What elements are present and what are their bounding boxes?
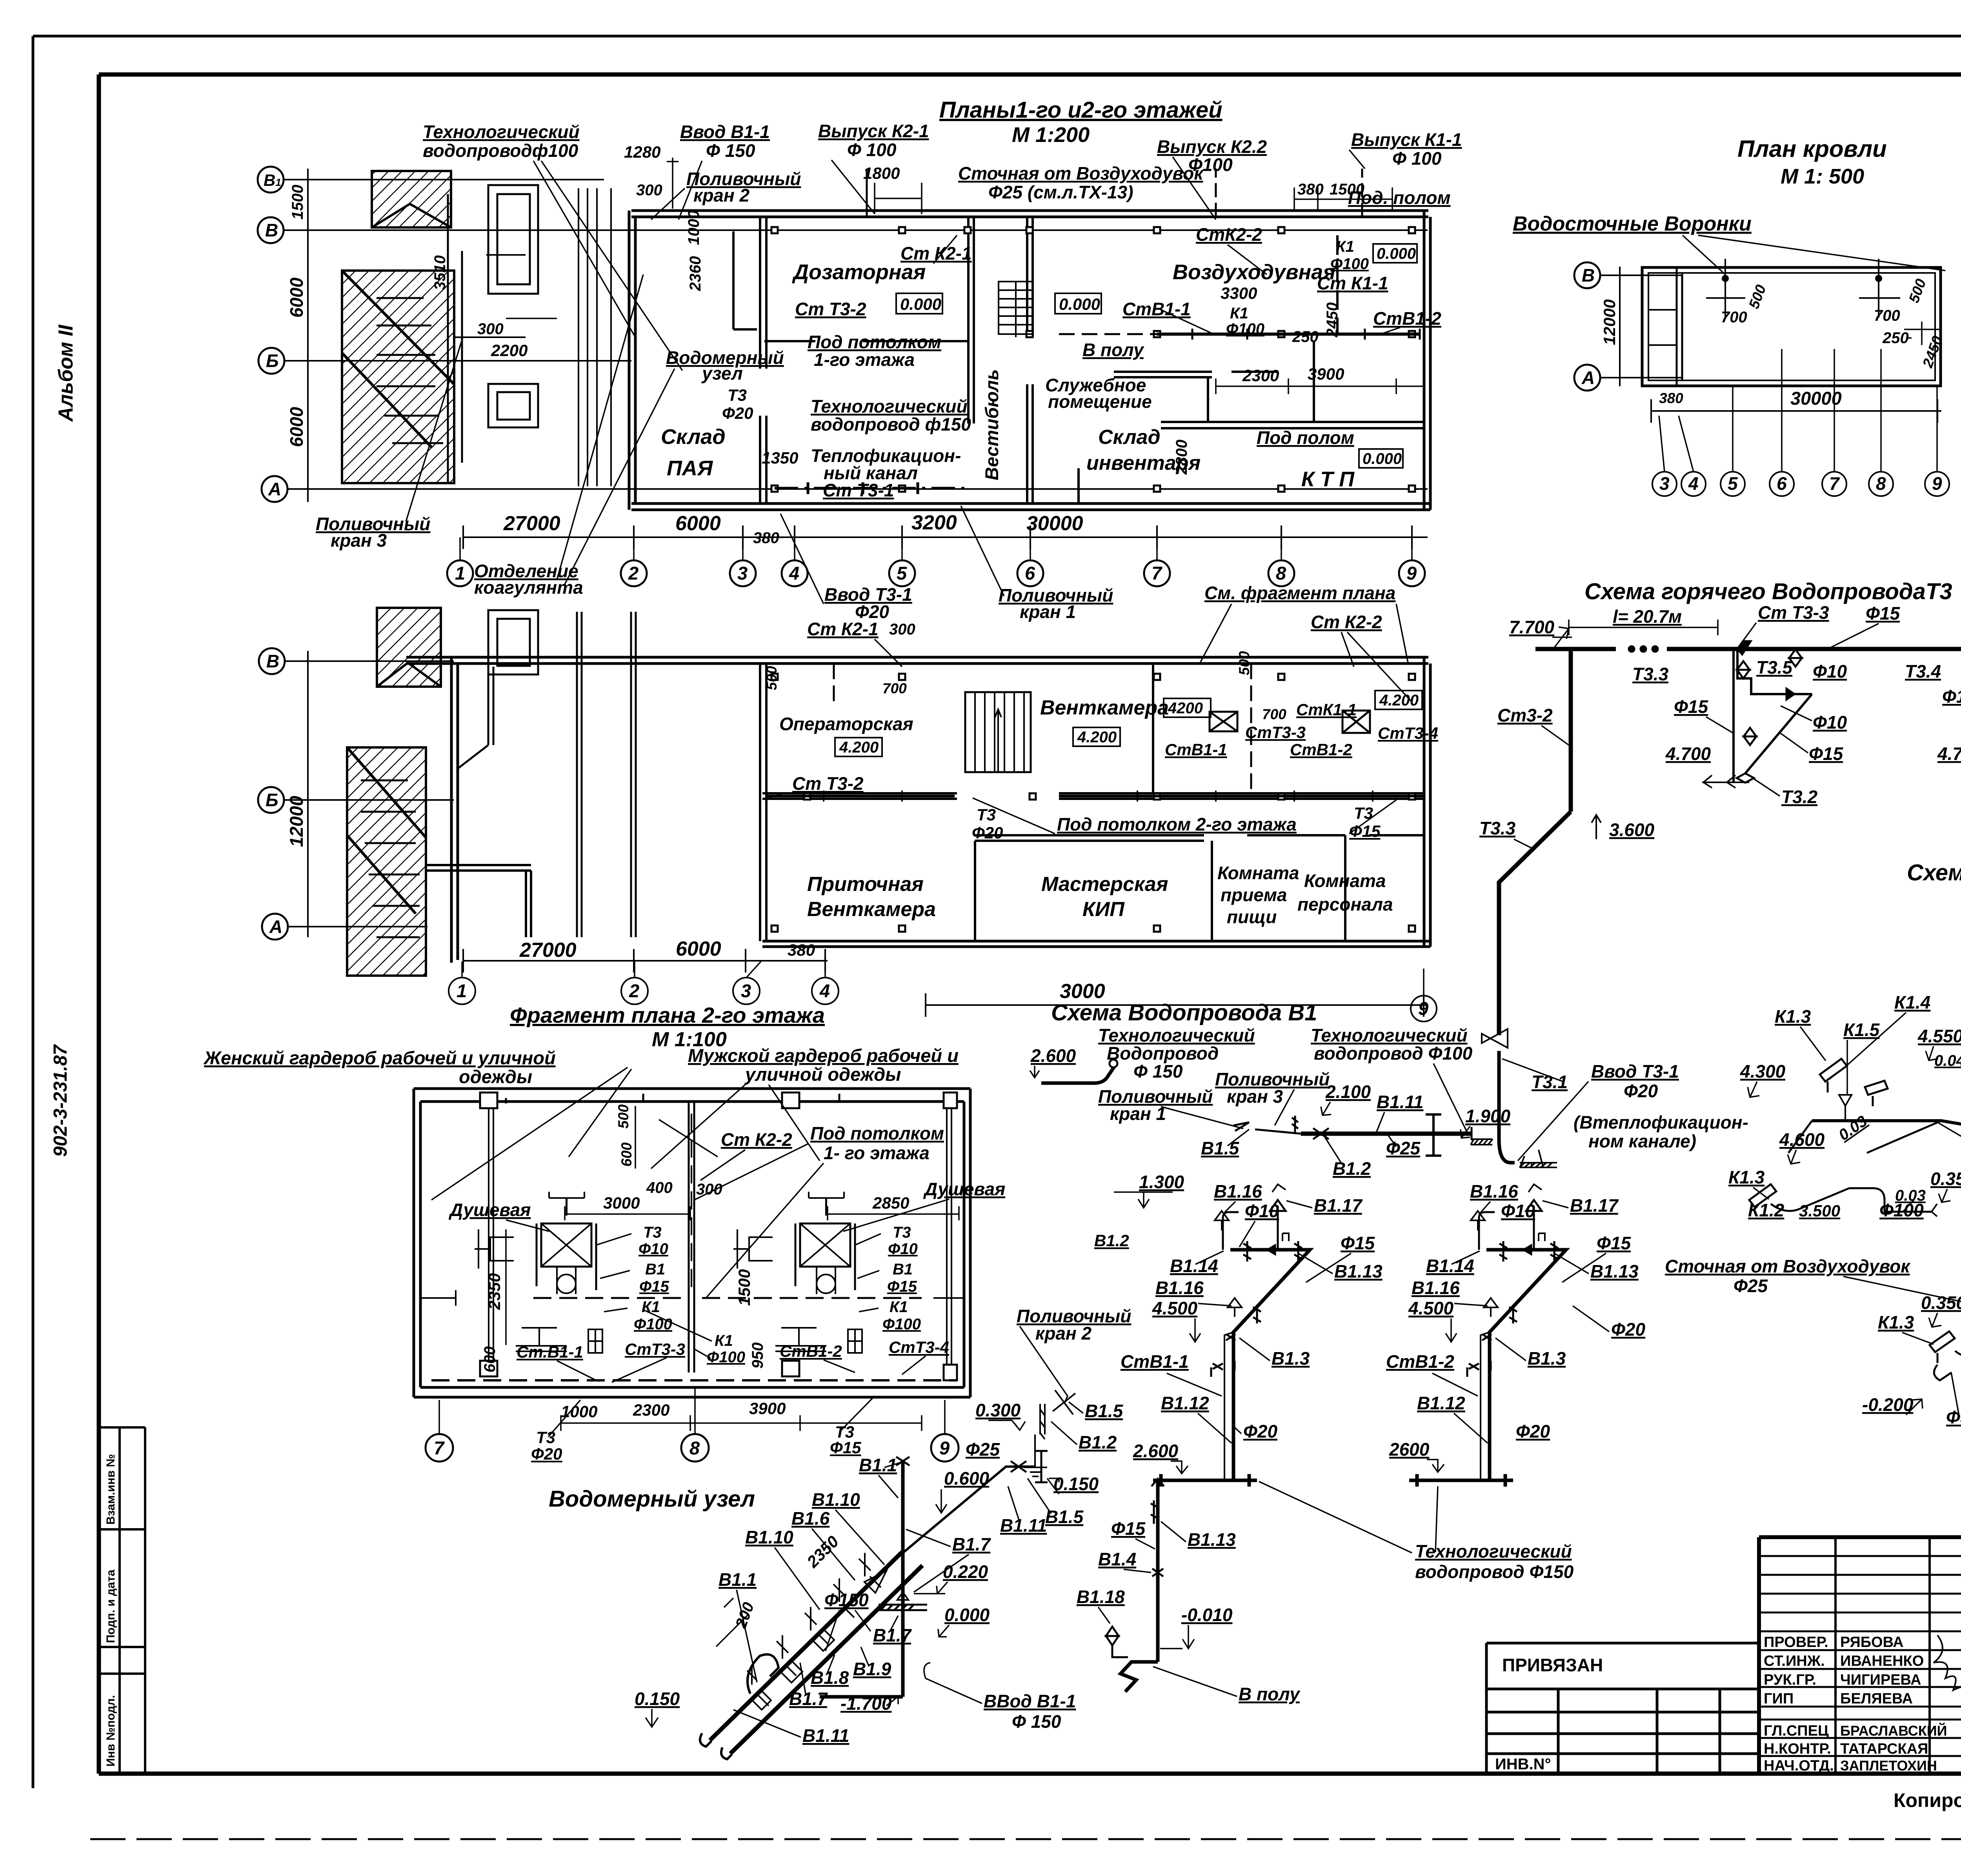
svg-text:Т3: Т3	[643, 1224, 662, 1241]
risers	[771, 674, 1415, 932]
svg-text:В1.3: В1.3	[1272, 1348, 1310, 1369]
svg-text:4.200: 4.200	[1077, 729, 1117, 746]
grid circles 1-9	[447, 537, 1425, 586]
svg-text:0.350: 0.350	[1930, 1169, 1961, 1189]
svg-text:ПРИВЯЗАН: ПРИВЯЗАН	[1502, 1655, 1603, 1675]
grid column 1	[447, 560, 473, 586]
svg-text:7.700: 7.700	[1509, 617, 1555, 637]
left dim line	[300, 169, 316, 502]
svg-text:ПРОВЕР.: ПРОВЕР.	[1764, 1634, 1828, 1651]
svg-text:В1.16: В1.16	[1470, 1181, 1518, 1202]
svg-text:Склад: Склад	[661, 425, 726, 449]
svg-text:Ф10: Ф10	[888, 1240, 918, 1258]
left bottom cluster поливочный кран 2	[966, 1306, 1131, 1476]
svg-text:500: 500	[615, 1104, 631, 1129]
svg-text:500: 500	[1746, 282, 1769, 311]
svg-text:Душевая: Душевая	[448, 1200, 531, 1220]
svg-text:27000: 27000	[503, 512, 560, 535]
svg-text:2350: 2350	[485, 1273, 504, 1310]
svg-text:3000: 3000	[603, 1194, 640, 1212]
svg-text:3.600: 3.600	[1609, 820, 1655, 840]
svg-text:ЗАПЛЕТОХИН: ЗАПЛЕТОХИН	[1840, 1758, 1937, 1774]
svg-text:1000: 1000	[561, 1402, 597, 1421]
svg-text:Под полом: Под полом	[1257, 427, 1354, 448]
svg-text:Ф100: Ф100	[707, 1349, 745, 1366]
svg-text:Выпуск К2-1: Выпуск К2-1	[818, 121, 929, 141]
риски/колонны	[480, 1093, 957, 1380]
svg-text:500: 500	[764, 666, 780, 690]
svg-text:Ф15: Ф15	[1942, 686, 1961, 707]
svg-text:950: 950	[749, 1342, 766, 1369]
svg-text:0.000: 0.000	[1363, 450, 1402, 467]
svg-text:3510: 3510	[431, 255, 449, 290]
svg-text:Технологический: Технологический	[423, 122, 580, 142]
svg-text:К1.4: К1.4	[1894, 992, 1930, 1013]
svg-text:2200: 2200	[491, 341, 528, 360]
shower cabin left	[541, 1223, 591, 1267]
pipe под полом 1-го этажа	[775, 487, 969, 490]
svg-text:М 1:200: М 1:200	[1012, 123, 1090, 147]
svg-text:План кровли: План кровли	[1737, 136, 1887, 162]
svg-text:СтВ1-2: СтВ1-2	[1386, 1351, 1454, 1372]
svg-text:700: 700	[1262, 706, 1286, 722]
grid column 3	[730, 560, 756, 586]
water meter unit axonometric	[635, 1451, 1301, 1759]
svg-text:2600: 2600	[1389, 1439, 1430, 1460]
svg-text:4.200: 4.200	[839, 739, 879, 756]
funnels	[1513, 213, 1946, 370]
svg-text:приема: приема	[1221, 885, 1287, 905]
grid axis А	[262, 476, 287, 502]
svg-text:4: 4	[819, 980, 830, 1001]
svg-text:Сточная от Воздуходувок: Сточная от Воздуходувок	[1665, 1256, 1911, 1276]
lower-middle cluster	[1930, 1290, 1961, 1380]
axis lines	[284, 180, 1428, 489]
svg-text:12000: 12000	[1600, 299, 1619, 345]
left wall	[629, 211, 635, 510]
svg-text:Ф10: Ф10	[1813, 661, 1847, 682]
svg-text:4200: 4200	[1168, 700, 1203, 717]
svg-text:Ф10: Ф10	[1245, 1201, 1279, 1221]
svg-text:1350: 1350	[762, 449, 798, 467]
svg-text:Ф15: Ф15	[887, 1278, 917, 1295]
svg-text:В1.10: В1.10	[745, 1527, 793, 1547]
scheme Т3 (горячий водопровод)	[1471, 579, 1961, 1168]
svg-text:В1.17: В1.17	[1314, 1195, 1363, 1216]
grid column 8	[1268, 560, 1294, 586]
svg-text:Ст Т3-3: Ст Т3-3	[1758, 602, 1829, 623]
svg-text:1: 1	[457, 980, 467, 1001]
pipes	[733, 169, 1420, 494]
svg-text:500: 500	[1236, 651, 1252, 675]
left shower assembly	[475, 1192, 602, 1353]
svg-text:В1.16: В1.16	[1155, 1278, 1204, 1298]
svg-text:ПАЯ: ПАЯ	[667, 456, 713, 480]
column/riser marks along walls	[771, 227, 1415, 492]
svg-text:Т3: Т3	[1354, 804, 1373, 822]
svg-text:СтТ3-3: СтТ3-3	[1245, 723, 1306, 742]
svg-text:Венткамера: Венткамера	[1040, 696, 1169, 719]
svg-text:2800: 2800	[1173, 440, 1190, 475]
svg-text:8: 8	[1876, 473, 1886, 494]
svg-text:0.04: 0.04	[1934, 1052, 1961, 1069]
svg-text:В1.1: В1.1	[719, 1569, 757, 1590]
svg-text:См. фрагмент плана: См. фрагмент плана	[1204, 583, 1395, 603]
svg-text:1-го этажа: 1-го этажа	[814, 349, 915, 370]
svg-text:2300: 2300	[1242, 366, 1279, 385]
svg-text:Т3.5: Т3.5	[1756, 657, 1793, 678]
roof outline	[1642, 267, 1941, 386]
svg-text:СтВ1-2: СтВ1-2	[780, 1342, 842, 1360]
svg-text:2350: 2350	[803, 1532, 842, 1571]
grid circles В Б А	[258, 648, 454, 940]
svg-text:В1: В1	[893, 1261, 913, 1278]
svg-text:Ф15: Ф15	[1349, 822, 1381, 840]
svg-text:кран 2: кран 2	[1035, 1323, 1092, 1343]
svg-text:Ф15: Ф15	[1674, 696, 1708, 717]
svg-text:1.900: 1.900	[1465, 1106, 1511, 1126]
svg-text:Операторская: Операторская	[779, 714, 913, 734]
svg-text:600: 600	[618, 1142, 635, 1167]
svg-text:Ф20: Ф20	[972, 823, 1003, 842]
svg-text:Ф20: Ф20	[1611, 1319, 1645, 1340]
svg-text:3: 3	[737, 563, 748, 584]
svg-text:Технологический: Технологический	[811, 396, 968, 416]
svg-text:Ф 150: Ф 150	[1012, 1711, 1061, 1732]
svg-text:0.300: 0.300	[975, 1400, 1021, 1420]
svg-text:380: 380	[1659, 390, 1683, 406]
right wall	[1424, 211, 1430, 510]
svg-text:Дозаторная: Дозаторная	[792, 260, 926, 284]
svg-text:водопровод ф150: водопровод ф150	[811, 414, 971, 434]
central stack wall СтК1-1	[420, 1102, 964, 1372]
svg-text:6000: 6000	[286, 407, 307, 447]
svg-text:1800: 1800	[863, 164, 900, 182]
svg-text:3000: 3000	[1060, 980, 1105, 1003]
shower cabin right	[800, 1223, 850, 1267]
svg-text:ИНВ.N°: ИНВ.N°	[1495, 1756, 1551, 1773]
svg-text:Ф15: Ф15	[1111, 1518, 1146, 1539]
mid horizontal walls	[762, 793, 1424, 799]
bottom label	[1259, 1482, 1574, 1582]
svg-text:Под. полом: Под. полом	[1348, 187, 1451, 208]
svg-text:К1: К1	[1336, 238, 1354, 255]
vestibule walls	[968, 217, 1033, 504]
svg-text:2.600: 2.600	[1030, 1045, 1076, 1066]
svg-text:СтВ1-1: СтВ1-1	[1165, 740, 1227, 759]
svg-text:2850: 2850	[872, 1194, 909, 1212]
svg-text:ИВАНЕНКО: ИВАНЕНКО	[1840, 1653, 1924, 1669]
dims and circles	[449, 938, 1437, 1022]
labels	[316, 97, 1462, 622]
svg-text:4: 4	[789, 563, 799, 584]
svg-text:2450: 2450	[1324, 302, 1341, 338]
building walls	[406, 610, 1430, 963]
grid column 8 (fragment)	[681, 1434, 709, 1462]
svg-text:4.200: 4.200	[1379, 692, 1419, 709]
svg-text:Водомерный узел: Водомерный узел	[549, 1486, 755, 1512]
svg-text:380: 380	[788, 941, 815, 959]
svg-text:кран 3: кран 3	[1227, 1086, 1283, 1107]
outdoor stair hatched mass	[342, 271, 454, 483]
svg-text:Ф100: Ф100	[634, 1316, 672, 1333]
vent shaft 1	[1210, 712, 1237, 731]
symbols left group	[1702, 641, 1802, 788]
svg-text:-0.200: -0.200	[1862, 1394, 1914, 1415]
svg-text:ГИП: ГИП	[1764, 1691, 1794, 1707]
svg-text:Ф20: Ф20	[1243, 1421, 1277, 1442]
svg-text:1280: 1280	[624, 143, 660, 161]
svg-text:9: 9	[1932, 473, 1942, 494]
svg-text:0.000: 0.000	[1059, 295, 1100, 313]
pipe в полу	[1157, 333, 1420, 336]
svg-text:250: 250	[1292, 328, 1319, 345]
svg-text:ГЛ.СПЕЦ: ГЛ.СПЕЦ	[1764, 1723, 1829, 1739]
stairwell	[965, 692, 1031, 772]
svg-text:5: 5	[1728, 473, 1738, 494]
grid circles 7 8 9	[426, 1388, 959, 1462]
svg-text:0.000: 0.000	[944, 1605, 990, 1625]
В1 main pipe Ф25	[1301, 1132, 1472, 1136]
svg-text:ЧИГИРЕВА: ЧИГИРЕВА	[1840, 1672, 1921, 1688]
svg-text:одежды: одежды	[459, 1066, 532, 1087]
svg-text:В1.10: В1.10	[812, 1489, 860, 1510]
svg-text:Ф150: Ф150	[824, 1590, 869, 1610]
svg-text:В1.4: В1.4	[1098, 1549, 1136, 1569]
svg-text:380: 380	[1297, 181, 1324, 198]
svg-text:К1: К1	[715, 1332, 733, 1349]
svg-text:300: 300	[636, 182, 662, 199]
svg-text:Комната: Комната	[1217, 863, 1299, 883]
svg-text:В1.13: В1.13	[1334, 1261, 1383, 1282]
svg-text:Ф20: Ф20	[1516, 1421, 1550, 1442]
svg-text:Т3: Т3	[536, 1428, 555, 1447]
grid axis В1	[258, 167, 284, 193]
svg-text:Женский гардероб рабочей и у: Женский гардероб рабочей и уличной	[203, 1047, 556, 1068]
svg-text:12000: 12000	[286, 796, 307, 847]
svg-text:300: 300	[889, 621, 915, 638]
second floor plan	[258, 583, 1438, 1051]
svg-text:Ф20: Ф20	[1624, 1081, 1658, 1101]
svg-text:Ф 150: Ф 150	[1133, 1061, 1183, 1082]
svg-text:0.03: 0.03	[1835, 1113, 1870, 1144]
svg-text:0.000: 0.000	[900, 295, 941, 313]
svg-text:В1.14: В1.14	[1426, 1256, 1474, 1276]
svg-text:3: 3	[1659, 473, 1670, 494]
svg-text:кран 3: кран 3	[331, 530, 387, 551]
svg-text:А: А	[268, 479, 281, 499]
T3 labels	[1471, 598, 1961, 1168]
svg-text:Ст Т3-2: Ст Т3-2	[792, 773, 864, 794]
grid axis Б	[258, 348, 284, 374]
svg-text:БЕЛЯЕВА: БЕЛЯЕВА	[1840, 1691, 1913, 1707]
right shower assembly (mirror)	[733, 1192, 862, 1353]
svg-text:Воздуходувная: Воздуходувная	[1173, 260, 1335, 284]
svg-text:К1: К1	[1230, 305, 1248, 322]
room walls around Дозаторная	[764, 340, 969, 342]
svg-text:Под потолком: Под потолком	[810, 1123, 944, 1143]
left group of K1	[1749, 953, 1961, 1216]
svg-text:узел: узел	[701, 363, 743, 384]
svg-text:4.550: 4.550	[1917, 1026, 1961, 1046]
svg-text:Ст Т3-1: Ст Т3-1	[823, 480, 894, 500]
svg-text:В: В	[266, 651, 279, 671]
svg-text:кран 2: кран 2	[693, 185, 750, 205]
svg-text:В1: В1	[264, 171, 281, 189]
svg-text:Комната: Комната	[1304, 871, 1386, 891]
svg-text:В1.12: В1.12	[1161, 1393, 1209, 1413]
svg-text:Ввод Т3-1: Ввод Т3-1	[1591, 1061, 1679, 1082]
svg-text:Ф15: Ф15	[1866, 603, 1900, 624]
svg-text:Т3: Т3	[977, 805, 996, 824]
svg-text:27000: 27000	[519, 939, 577, 962]
svg-text:К Т П: К Т П	[1301, 467, 1355, 491]
svg-text:6: 6	[1777, 473, 1787, 494]
svg-text:РУК.ГР.: РУК.ГР.	[1764, 1672, 1816, 1688]
svg-text:НАЧ.ОТД.: НАЧ.ОТД.	[1764, 1758, 1834, 1774]
main diagonal twin pipes	[700, 1552, 922, 1759]
svg-text:Ф 100: Ф 100	[1392, 148, 1442, 169]
svg-text:Подп. и дата: Подп. и дата	[104, 1569, 117, 1643]
svg-text:Ф20: Ф20	[722, 404, 753, 422]
interior walls right part	[1161, 422, 1424, 428]
svg-text:Вестибюль: Вестибюль	[981, 369, 1002, 480]
riser К1 Ф100 dashed	[1336, 235, 1339, 334]
svg-text:СТ.ИНЖ.: СТ.ИНЖ.	[1764, 1653, 1825, 1669]
svg-text:Ф15: Ф15	[639, 1278, 669, 1295]
scheme К1 (канализация)	[1665, 860, 1961, 1427]
dimension row bottom	[463, 511, 1428, 549]
svg-text:Ф 150: Ф 150	[706, 140, 755, 161]
pipes under ceiling 2nd floor	[766, 664, 1424, 802]
Т3 main pipe 7.700	[1535, 647, 1961, 651]
svg-text:8: 8	[689, 1438, 700, 1458]
svg-text:ном канале): ном канале)	[1588, 1131, 1696, 1151]
svg-text:1000: 1000	[685, 210, 702, 245]
grid column 5	[889, 560, 915, 586]
main line	[1499, 633, 1961, 1163]
svg-text:персонала: персонала	[1297, 894, 1393, 914]
svg-text:3: 3	[741, 980, 751, 1001]
corridor double walls	[577, 612, 636, 937]
svg-text:300: 300	[477, 320, 504, 338]
svg-text:2.100: 2.100	[1325, 1082, 1371, 1102]
svg-text:Ф15: Ф15	[1597, 1233, 1631, 1253]
svg-text:8: 8	[1276, 563, 1286, 584]
left margin stamp boxes	[99, 1427, 145, 1774]
svg-text:В1.5: В1.5	[1085, 1401, 1124, 1421]
svg-text:В1.9: В1.9	[853, 1659, 891, 1679]
svg-text:Ф15: Ф15	[1341, 1233, 1375, 1253]
svg-text:А: А	[269, 916, 282, 937]
svg-text:1- го этажа: 1- го этажа	[824, 1143, 930, 1163]
svg-text:БРАСЛАВСКИЙ: БРАСЛАВСКИЙ	[1840, 1722, 1947, 1739]
svg-text:3200: 3200	[911, 511, 957, 534]
svg-text:Ф20: Ф20	[531, 1445, 562, 1463]
svg-text:500: 500	[1906, 276, 1929, 305]
svg-text:Ф100: Ф100	[1330, 255, 1369, 273]
right branch В1.13	[1106, 1479, 1164, 1692]
svg-text:Планы1-го и2-го этажей: Планы1-го и2-го этажей	[939, 97, 1222, 123]
svg-text:Ст Т3-2: Ст Т3-2	[795, 299, 866, 319]
svg-text:0.150: 0.150	[1053, 1474, 1099, 1494]
svg-text:Ст К2-2: Ст К2-2	[1311, 612, 1382, 632]
inlet pipe Ввод В1-1 Ф150	[710, 1552, 902, 1740]
building bottom wall	[631, 504, 1430, 510]
svg-text:СтК2-2: СтК2-2	[1196, 224, 1262, 245]
svg-text:СтВ1-2: СтВ1-2	[1290, 740, 1352, 759]
svg-text:Т3: Т3	[728, 386, 747, 404]
title block (штамп)	[1486, 1537, 1961, 1835]
svg-text:Приточная: Приточная	[807, 873, 924, 896]
building walls	[629, 211, 1430, 510]
svg-text:Ст3-2: Ст3-2	[1497, 705, 1553, 725]
building top wall	[631, 211, 1428, 217]
stack Ст3-2	[1569, 649, 1573, 812]
svg-text:300: 300	[696, 1181, 722, 1198]
roof funnel 1	[1723, 276, 1728, 281]
grid column 4	[782, 560, 808, 586]
svg-text:уличной одежды: уличной одежды	[744, 1064, 901, 1085]
svg-text:700: 700	[1874, 307, 1900, 324]
svg-text:Технологический: Технологический	[1311, 1025, 1468, 1045]
svg-text:Ф15: Ф15	[830, 1438, 861, 1457]
vertical riser and top	[820, 1451, 1048, 1697]
svg-text:Ф25: Ф25	[966, 1439, 1000, 1460]
svg-text:кран 1: кран 1	[1110, 1103, 1166, 1124]
svg-text:4.300: 4.300	[1740, 1061, 1786, 1082]
svg-text:2360: 2360	[687, 256, 704, 291]
svg-text:В1.2: В1.2	[1079, 1432, 1117, 1452]
interior wall col3 (x1944)	[760, 217, 766, 504]
svg-text:700: 700	[882, 680, 907, 696]
svg-text:Ф25: Ф25	[1386, 1138, 1421, 1158]
svg-text:Ф 100: Ф 100	[847, 140, 897, 160]
svg-text:СтТ3-3: СтТ3-3	[625, 1340, 685, 1358]
svg-text:3900: 3900	[749, 1399, 786, 1418]
svg-text:1.300: 1.300	[1139, 1172, 1184, 1192]
svg-text:2300: 2300	[633, 1401, 669, 1419]
svg-text:30000: 30000	[1026, 512, 1083, 535]
stack СтВ1-2 branch tree (mirror)	[1409, 1184, 1566, 1487]
svg-text:СтК1-1: СтК1-1	[1296, 700, 1357, 719]
svg-text:Ввод В1-1: Ввод В1-1	[680, 122, 770, 142]
svg-text:Ф100: Ф100	[1226, 320, 1264, 338]
svg-text:7: 7	[434, 1438, 445, 1458]
svg-text:4.500: 4.500	[1152, 1298, 1198, 1318]
svg-text:3900: 3900	[1308, 365, 1344, 383]
main horizontal pipe	[1233, 1114, 1472, 1156]
svg-text:4.700: 4.700	[1665, 743, 1711, 764]
svg-text:Под потолком 2-го этажа: Под потолком 2-го этажа	[1057, 814, 1297, 834]
svg-text:В1.11: В1.11	[802, 1725, 849, 1746]
svg-text:К1: К1	[890, 1298, 908, 1316]
svg-text:6: 6	[1025, 563, 1035, 584]
svg-text:4.700: 4.700	[1937, 743, 1961, 764]
svg-text:К1.3: К1.3	[1775, 1006, 1811, 1027]
svg-text:В1.13: В1.13	[1188, 1529, 1236, 1550]
svg-text:1: 1	[455, 563, 465, 584]
svg-text:0.600: 0.600	[944, 1468, 990, 1489]
svg-text:600: 600	[481, 1346, 498, 1372]
vent shafts with X	[1210, 711, 1370, 733]
stair hatched mass	[347, 608, 441, 976]
svg-text:водопровод Ф150: водопровод Ф150	[1415, 1562, 1574, 1582]
svg-text:В1.11: В1.11	[1000, 1515, 1047, 1536]
svg-text:К1.3: К1.3	[1728, 1167, 1765, 1187]
svg-text:В1.7: В1.7	[952, 1534, 991, 1554]
grid column 7 (fragment)	[426, 1434, 453, 1462]
